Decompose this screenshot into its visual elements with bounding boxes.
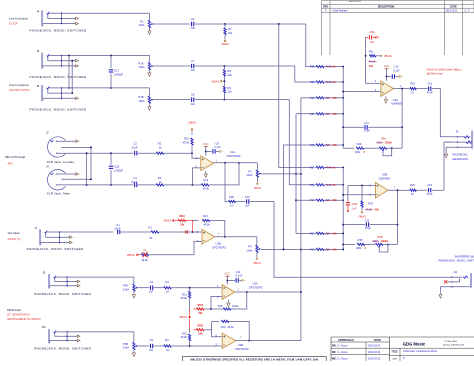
svg-text:VBIAS: VBIAS	[384, 54, 392, 58]
svg-text:R8: R8	[227, 69, 231, 73]
J3 pin wires	[57, 173, 75, 175]
resistor R26	[315, 81, 316, 83]
svg-text:U3B: U3B	[382, 172, 387, 176]
svg-text:P6A: P6A	[381, 136, 386, 140]
potentiometer P1	[148, 20, 150, 27]
svg-text:100kA: 100kA	[381, 239, 389, 243]
op-amp U2A	[222, 285, 235, 300]
svg-text:C12: C12	[365, 218, 370, 222]
svg-text:VCC: VCC	[224, 272, 230, 276]
resistor RM4 mod	[178, 219, 186, 221]
svg-text:PHONEJAC: PHONEJAC	[452, 153, 467, 157]
svg-text:OP275GPZ: OP275GPZ	[212, 246, 226, 250]
svg-text:MIC In/Through: MIC In/Through	[5, 155, 25, 159]
svg-text:P1: P1	[140, 19, 144, 23]
svg-text:REV: REV	[323, 6, 328, 9]
capacitor C4	[149, 286, 151, 290]
svg-text:R3: R3	[158, 176, 162, 180]
wire R14 to U1B output	[210, 221, 225, 237]
svg-text:22k: 22k	[369, 64, 374, 68]
svg-text:1uF: 1uF	[149, 348, 154, 352]
wire U1B -in to R6	[149, 242, 202, 255]
svg-text:1uF: 1uF	[190, 102, 195, 106]
capacitor C13	[387, 76, 392, 78]
svg-text:11k: 11k	[333, 231, 338, 235]
connector J9 phone jack body	[49, 274, 50, 288]
svg-text:49.9k: 49.9k	[232, 304, 239, 308]
wire U2B out to monitor bus	[236, 340, 301, 342]
svg-text:OP275GPZ: OP275GPZ	[227, 154, 241, 158]
resistor R33	[410, 88, 416, 90]
resistor RM2 mod	[188, 328, 191, 331]
svg-text:C3: C3	[133, 176, 137, 180]
svg-text:PHONEJACK, MONO, SWIT: PHONEJACK, MONO, SWIT	[438, 259, 474, 263]
resistor R18 row	[296, 232, 314, 234]
J7 no-connect arrow	[68, 241, 70, 243]
svg-text:R28: R28	[310, 183, 315, 187]
potentiometer P2A	[148, 62, 150, 69]
wire U3B noninverting node	[348, 185, 376, 187]
svg-text:R1: R1	[148, 226, 152, 230]
J11 sleeve wire	[441, 286, 471, 288]
capacitor C15	[416, 189, 427, 191]
ground below U2A	[227, 300, 229, 303]
J11 ring switch wire	[452, 278, 460, 282]
potentiometer P6B	[365, 243, 375, 245]
svg-text:10kA: 10kA	[246, 173, 252, 177]
wire P1 wiper	[153, 23, 191, 25]
connector J7 phone jack body	[40, 229, 41, 245]
svg-text:G. Gross: G. Gross	[338, 345, 349, 348]
wire R3 to U1A -in	[164, 184, 193, 186]
svg-text:100k: 100k	[355, 150, 361, 154]
capacitor C5	[149, 344, 151, 348]
svg-text:PHONEJACK, MONO, SWITCHED: PHONEJACK, MONO, SWITCHED	[34, 292, 91, 296]
J5 no-connect arrow	[74, 65, 76, 67]
wire to J11	[250, 202, 452, 278]
VBIAS above R10	[191, 129, 193, 131]
capacitor C1	[116, 230, 118, 234]
svg-text:GDG Music: GDG Music	[403, 342, 426, 347]
svg-text:PHONEJACK, MONO, SWITCHED: PHONEJACK, MONO, SWITCHED	[27, 247, 84, 251]
svg-text:1uF: 1uF	[352, 207, 357, 211]
capacitor C19	[236, 201, 246, 203]
svg-text:10k: 10k	[180, 222, 185, 226]
resistor R36	[225, 201, 228, 203]
wire J5 tip to P2A	[62, 56, 150, 63]
wire click net to mixers	[225, 23, 306, 25]
svg-text:R11: R11	[182, 292, 187, 296]
svg-text:HEADPHON: HEADPHON	[452, 157, 468, 161]
connector J3 XLR male	[48, 170, 66, 190]
svg-text:22k: 22k	[198, 311, 203, 315]
svg-text:49.9k: 49.9k	[141, 258, 148, 262]
J9 switch bus	[66, 277, 68, 286]
svg-text:Line In (mono): Line In (mono)	[9, 17, 28, 21]
svg-text:C19: C19	[245, 195, 250, 199]
svg-text:BUFFERED MI: BUFFERED MI	[455, 254, 474, 258]
svg-text:C1: C1	[116, 223, 120, 227]
op-amp U2B	[222, 333, 236, 348]
wire U3A output	[394, 88, 410, 90]
resistor R11	[189, 288, 191, 291]
svg-text:Inst Input: Inst Input	[8, 231, 20, 235]
J4 pin wires	[49, 12, 61, 14]
capacitor C6	[191, 22, 193, 26]
svg-text:NJM4560: NJM4560	[379, 176, 391, 180]
svg-text:MIC: MIC	[8, 161, 14, 165]
wire U2A -in	[211, 296, 222, 309]
wire R2 to U1A	[164, 152, 192, 154]
capacitor CM2 mod	[347, 200, 349, 202]
capacitor C18	[110, 153, 112, 164]
resistor R18	[315, 232, 316, 234]
svg-text:R25: R25	[310, 65, 315, 69]
ground below U3A	[385, 96, 387, 99]
svg-text:DR:: DR:	[332, 345, 337, 348]
svg-text:CM2: CM2	[352, 202, 358, 206]
wire CM1 column to U3A noninverting input	[365, 37, 367, 83]
svg-text:R9: R9	[227, 86, 231, 90]
svg-text:1uF: 1uF	[245, 203, 250, 207]
wire P5B wiper	[137, 345, 149, 347]
capacitor C2	[134, 151, 136, 155]
feedback vertical U3B	[397, 190, 399, 244]
wire P5A wiper	[137, 287, 149, 289]
resistor R10	[191, 138, 193, 145]
J5 switch bus	[61, 56, 63, 66]
potentiometer P4	[256, 245, 258, 252]
op-amp U1A	[201, 156, 214, 171]
wire R4 to U2A +in	[171, 287, 222, 289]
svg-text:PHONEJACK, MONO, SWITCHED: PHONEJACK, MONO, SWITCHED	[30, 75, 87, 79]
J9 no-connect arrow	[76, 280, 78, 282]
capacitor C9	[206, 150, 212, 152]
wire bus to U3A inverting input	[343, 91, 381, 93]
svg-text:R35: R35	[358, 238, 363, 242]
resistor R5	[154, 345, 164, 347]
svg-text:VCC: VCC	[384, 64, 390, 68]
svg-text:100k: 100k	[356, 246, 362, 250]
ground below P1	[148, 28, 150, 31]
wire click drop to R27	[279, 24, 314, 167]
resistor R12	[189, 330, 191, 333]
svg-text:OP275GPZ: OP275GPZ	[249, 286, 263, 290]
wire U1A out buffered tap	[224, 163, 226, 202]
wire P2B wiper	[153, 99, 191, 101]
resistor R34	[410, 189, 416, 191]
svg-text:SWITCHABLE TO MONO: SWITCHABLE TO MONO	[7, 317, 41, 321]
red X at J11	[444, 280, 447, 283]
potentiometer P6A	[364, 147, 380, 149]
svg-text:10kA: 10kA	[123, 287, 129, 291]
svg-text:C10: C10	[236, 270, 241, 274]
svg-text:22uF: 22uF	[131, 145, 137, 149]
svg-text:49.9k: 49.9k	[203, 187, 210, 191]
svg-text:1000pF: 1000pF	[114, 169, 123, 173]
svg-text:10kA: 10kA	[138, 65, 144, 69]
wire R13 to output	[209, 163, 239, 185]
wire C6 to R7 node	[195, 23, 225, 25]
wire mic link 1	[86, 153, 88, 185]
VBIAS at R6	[139, 254, 141, 256]
potentiometer P3	[256, 170, 258, 177]
svg-text:1uF: 1uF	[190, 26, 195, 30]
svg-text:10kA: 10kA	[123, 346, 129, 350]
resistor R1	[121, 231, 151, 233]
svg-text:R5: R5	[165, 338, 169, 342]
wire P2A wiper	[153, 65, 191, 67]
wire bus to U3B inverting input	[343, 194, 375, 196]
P6B wiper loop	[379, 244, 388, 252]
svg-text:R12: R12	[182, 331, 187, 335]
svg-text:PO Box 2801: PO Box 2801	[445, 341, 458, 343]
svg-text:U2A: U2A	[253, 281, 258, 285]
capacitor C17	[110, 56, 112, 69]
svg-text:C13: C13	[394, 64, 399, 68]
svg-text:C17: C17	[114, 68, 119, 72]
svg-text:ME:: ME:	[332, 357, 337, 360]
wire J4 tip to P1	[62, 13, 150, 20]
svg-text:CLICK (?): CLICK (?)	[8, 237, 21, 241]
wire mic bus to R24	[296, 199, 315, 201]
capacitor C12	[343, 224, 365, 226]
resistor R7	[224, 24, 226, 27]
title block frame	[331, 337, 474, 361]
svg-text:1uF: 1uF	[370, 40, 375, 44]
wire U2B pin6 from RM2 node	[212, 330, 223, 337]
J4 no-connect arrow	[74, 23, 76, 25]
VBIAS below P4	[256, 253, 258, 257]
ground below U1A	[205, 171, 207, 174]
wire C7 to R8 node	[195, 65, 224, 67]
J6 switch bus	[61, 88, 63, 98]
svg-text:U2B: U2B	[238, 343, 243, 347]
svg-text:47uF: 47uF	[427, 91, 433, 95]
connector J4 phone jack body	[42, 11, 43, 27]
wire U2A out to monitor bus	[235, 291, 301, 293]
wire R9 to P2B net	[223, 93, 225, 100]
wire junction down to inst net	[192, 221, 194, 233]
capacitor C16	[416, 88, 427, 90]
J10 switch bus	[66, 332, 68, 341]
resistor R35	[357, 243, 365, 245]
resistor R29	[356, 147, 364, 149]
wire J6 tip to P2B	[62, 88, 150, 96]
svg-text:11k: 11k	[333, 112, 338, 116]
svg-text:R29: R29	[357, 142, 362, 146]
svg-text:VBIAS: VBIAS	[188, 121, 196, 125]
J6 no-connect arrow	[74, 97, 76, 99]
wire J10 tip to P5B	[67, 332, 134, 342]
wire C16 to J8 tip	[432, 89, 451, 137]
svg-text:VBIAS: VBIAS	[127, 253, 135, 257]
J7 switch bus	[59, 232, 61, 242]
wire line L to R26	[224, 65, 294, 67]
svg-text:22k: 22k	[198, 332, 203, 336]
VBIAS below P3	[256, 177, 258, 182]
svg-text:10kA: 10kA	[138, 99, 144, 103]
ground below P2A	[148, 70, 150, 73]
red X on inst wire	[185, 230, 188, 233]
svg-text:R31: R31	[369, 50, 374, 54]
svg-text:47uF: 47uF	[427, 192, 433, 196]
svg-text:P3: P3	[248, 169, 252, 173]
resistor R6 crossed out	[141, 254, 149, 256]
wire feedback row U3B	[343, 243, 355, 245]
resistor R4	[154, 287, 164, 289]
svg-text:C9: C9	[215, 141, 219, 145]
left mixer bus	[342, 67, 344, 149]
svg-text:0.1uF: 0.1uF	[214, 145, 221, 149]
svg-text:R32: R32	[368, 202, 373, 206]
wire J5 to J6 link 1	[68, 56, 70, 88]
svg-text:TITLE: TITLE	[391, 351, 398, 354]
svg-text:SIZE: SIZE	[392, 358, 397, 360]
svg-text:G. G: G. G	[465, 10, 470, 13]
capacitor C11	[343, 126, 364, 128]
svg-text:R7: R7	[228, 27, 232, 31]
capacitor C7	[191, 64, 193, 68]
VBIAS below R7	[224, 35, 226, 40]
svg-text:CM1: CM1	[369, 30, 375, 34]
wire J5 to J6 link 2	[71, 61, 73, 93]
svg-text:10kA: 10kA	[246, 249, 252, 253]
op-amp U1B	[202, 229, 215, 244]
svg-text:OP275GPZ: OP275GPZ	[235, 347, 249, 351]
svg-text:U1B: U1B	[216, 242, 221, 246]
svg-text:Schematic, Headphone Mixer: Schematic, Headphone Mixer	[403, 349, 437, 353]
svg-text:VCC: VCC	[203, 142, 209, 146]
wire R5 to U2B noninverting input	[171, 345, 222, 347]
svg-text:C5: C5	[150, 338, 154, 342]
svg-text:R15: R15	[218, 304, 223, 308]
op-amp U3B	[376, 183, 389, 198]
svg-text:AUX/FX OUT(?): AUX/FX OUT(?)	[8, 88, 30, 92]
svg-text:22k: 22k	[227, 73, 232, 77]
feedback vertical U3A	[401, 89, 403, 149]
svg-text:DATE: DATE	[450, 6, 457, 9]
wire R16 to U2B out	[229, 321, 249, 340]
svg-text:49.9k: 49.9k	[180, 296, 187, 300]
connector J11 phone jack	[470, 273, 471, 287]
J4 no-connect arrow	[74, 17, 76, 19]
svg-text:0.1uF: 0.1uF	[236, 274, 243, 278]
J7 pin wires	[47, 231, 59, 233]
resistor R8	[223, 66, 225, 69]
resistor R19	[315, 248, 316, 250]
svg-text:PHONEJACK, MONO, SWITCHED: PHONEJACK, MONO, SWITCHED	[30, 29, 87, 33]
svg-text:R10: R10	[184, 136, 189, 140]
svg-text:C11: C11	[364, 121, 369, 125]
resistor R14 feedback	[202, 219, 210, 221]
svg-text:U3A: U3A	[393, 98, 398, 102]
svg-text:VBIAS: VBIAS	[253, 261, 261, 265]
svg-text:MON Input: MON Input	[7, 308, 21, 312]
svg-text:P2B: P2B	[138, 95, 143, 99]
connector J2 XLR female	[48, 137, 66, 157]
svg-text:NJM4560: NJM4560	[391, 102, 403, 106]
svg-text:DATE: DATE	[374, 338, 381, 342]
resistor R32	[361, 186, 363, 201]
wire R22 feed from P4	[284, 145, 315, 249]
VBIAS between RM1 RM2	[189, 309, 191, 316]
ground at J11	[440, 291, 442, 294]
J10 no-connect arrow	[76, 335, 78, 337]
wire mic link 2	[90, 147, 92, 179]
svg-text:RM2: RM2	[198, 324, 204, 328]
resistor RM1 mod	[188, 308, 191, 311]
svg-text:P6B: P6B	[377, 235, 382, 239]
resistor R3	[138, 184, 156, 186]
svg-text:P5A: P5A	[123, 284, 128, 288]
svg-text:R14: R14	[203, 214, 208, 218]
svg-text:G. Gross: G. Gross	[338, 351, 349, 354]
svg-text:UNLESS OTHERWISE SPECIFIED ALL: UNLESS OTHERWISE SPECIFIED ALL RESISTORS…	[190, 357, 319, 361]
svg-text:49.9k: 49.9k	[227, 325, 234, 329]
resistor R2	[138, 152, 156, 154]
svg-text:49.9k: 49.9k	[183, 141, 190, 145]
svg-text:R36: R36	[229, 195, 234, 199]
resistor R31	[369, 55, 375, 57]
J10 pin wires	[56, 331, 67, 333]
potentiometer P5A	[133, 284, 135, 291]
svg-text:22uF: 22uF	[131, 180, 137, 184]
revision table	[322, 1, 474, 55]
svg-text:2014.10.01: 2014.10.01	[368, 351, 381, 354]
J4 switch bus	[61, 13, 63, 23]
svg-text:1000pF: 1000pF	[114, 72, 123, 76]
wire U1B output to P4	[215, 237, 257, 245]
VBIAS below R32	[361, 207, 363, 210]
svg-text:R33: R33	[410, 81, 415, 85]
potentiometer P5B	[133, 342, 135, 349]
capacitor C3	[134, 183, 136, 187]
svg-text:DE:: DE:	[332, 351, 336, 354]
op-amp U3A	[381, 81, 394, 96]
svg-text:27pF: 27pF	[364, 129, 370, 133]
connector J8 phone jack	[472, 131, 473, 149]
wire U1A output to P3	[213, 162, 257, 164]
svg-text:C2: C2	[133, 141, 137, 145]
svg-text:VBIAS: VBIAS	[254, 186, 262, 190]
J6 pin wires	[49, 87, 61, 89]
VBIAS node between R8 R9	[223, 76, 225, 86]
svg-text:49.9k: 49.9k	[203, 222, 210, 226]
svg-text:2014.10.01: 2014.10.01	[368, 345, 381, 348]
J5 no-connect arrow	[74, 60, 76, 62]
ground below P5B	[133, 350, 135, 353]
ground below P5A	[133, 291, 135, 294]
svg-text:1uF: 1uF	[190, 68, 195, 72]
svg-text:Line In (stereo): Line In (stereo)	[9, 83, 28, 87]
right mixer bus	[342, 167, 344, 249]
svg-text:49.9k: 49.9k	[180, 335, 187, 339]
wire click drop to R25	[306, 24, 315, 67]
svg-text:C18: C18	[114, 165, 119, 169]
svg-text:P5B: P5B	[123, 342, 128, 346]
svg-text:11k: 11k	[333, 198, 338, 202]
svg-text:REVISIONS: REVISIONS	[349, 1, 361, 3]
svg-text:P4: P4	[248, 245, 252, 249]
svg-text:C16: C16	[427, 81, 432, 85]
connector J5 phone jack body	[42, 53, 43, 69]
svg-text:@9Ohm load: @9Ohm load	[427, 72, 443, 76]
connector J10 phone jack body	[49, 329, 50, 343]
svg-text:VBIAS: VBIAS	[211, 79, 219, 83]
wire RM1 to pin2 node	[204, 308, 211, 310]
J10 no-connect arrow	[76, 340, 78, 342]
